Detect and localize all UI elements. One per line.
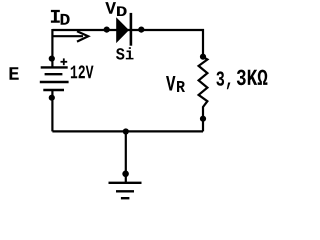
node dot resistor top (200, 54, 206, 60)
resistor R (199, 57, 208, 116)
node dot battery top (49, 56, 55, 62)
label E (10, 67, 19, 80)
node dot resistor bottom (200, 116, 206, 122)
node dot ground junction (123, 128, 129, 134)
wire top from left corner to diode anode (52, 29, 204, 31)
label 12V (71, 65, 94, 78)
battery E (40, 67, 69, 90)
wire right vertical lower (resistor to bottom corner) (202, 119, 204, 132)
ground (109, 183, 142, 198)
label Si (116, 47, 134, 59)
node dot battery bottom (49, 95, 55, 101)
wire left vertical lower (battery to bottom corner) (51, 90, 53, 131)
label 3,3K ohm resistor value (216, 70, 267, 90)
label V_R (166, 76, 185, 92)
label V_D (105, 2, 126, 16)
node dot diode cathode (138, 27, 144, 33)
wire ground stem (125, 132, 127, 183)
wire left vertical upper (corner to battery) (51, 29, 53, 67)
node dot diode anode (104, 27, 110, 33)
node dot ground (122, 171, 129, 178)
plus sign battery polarity (61, 58, 68, 65)
diode D1 (116, 13, 131, 46)
current arrow I_D (52, 31, 88, 41)
wire right vertical upper (corner to resistor) (202, 29, 204, 58)
label I_D (51, 10, 70, 25)
wire bottom from left corner to right corner (52, 130, 203, 132)
